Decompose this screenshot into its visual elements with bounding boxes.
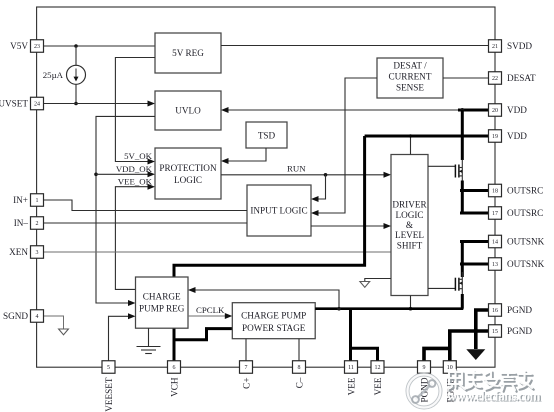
wire thick OUTSNK pin13 stub [460, 263, 489, 266]
ground charge pump reg (earth symbol) [137, 328, 161, 353]
svg-text:5V REG: 5V REG [172, 48, 204, 58]
svg-text:OUTSRC: OUTSRC [507, 208, 543, 218]
wire DESAT box to pin 22 [443, 77, 489, 79]
wire UVLO to VDD_OK chain [96, 116, 155, 306]
pin 3 (XEN) [9, 246, 43, 259]
wire VDD_OK arrow [96, 171, 155, 177]
svg-text:2: 2 [36, 221, 39, 227]
svg-text:VEE: VEE [347, 377, 357, 395]
svg-text:25µA: 25µA [43, 70, 64, 80]
svg-text:&: & [406, 220, 413, 230]
pin 13 (OUTSNK) [489, 258, 545, 271]
svg-text:SHIFT: SHIFT [397, 240, 423, 250]
wire thick FET2 drain feed [461, 242, 464, 278]
wire V5V to 5V REG [44, 45, 156, 47]
wire driver ground lead [365, 279, 391, 282]
block DESAT / CURRENT SENSE [377, 58, 443, 98]
pin 10 (PGND) [443, 361, 456, 403]
wire thick FET2 source to VEE bus [461, 294, 464, 309]
ground power (solid arrow) [466, 349, 485, 360]
pin 11 (VEE) [345, 361, 358, 396]
watermark chinese characters [448, 370, 534, 392]
watermark url text [447, 389, 542, 405]
block INPUT LOGIC [247, 185, 311, 236]
wire thick pin 9 to PGND net [424, 348, 450, 361]
wire driver logic top to VDD rail [410, 136, 412, 155]
block 5V REG [155, 33, 221, 73]
block PROTECTION LOGIC [155, 148, 221, 199]
wire SGND to ground [44, 316, 64, 329]
label 5V_OK [124, 151, 153, 161]
wire DESAT to input logic [311, 78, 377, 216]
pin 23 (V5V) [10, 40, 43, 53]
svg-text:UVSET: UVSET [0, 99, 28, 109]
wire 5V REG to SVDD [221, 45, 489, 47]
pin 20 (VDD) [489, 104, 528, 117]
wire thick VCH branch to power stage [174, 329, 232, 340]
pin 6 (VCH) [168, 361, 181, 397]
svg-text:20: 20 [492, 108, 498, 114]
pin 14 (OUTSNK) [489, 235, 545, 248]
svg-text:LEVEL: LEVEL [395, 230, 424, 240]
wire feedback to charge pump reg [188, 287, 339, 309]
transistor Q2 (sink FET) [428, 272, 463, 296]
wire thick OUTSRC pin18 stub [460, 189, 489, 192]
wire XEN to driver logic [44, 251, 392, 253]
svg-text:3: 3 [36, 250, 39, 256]
svg-text:21: 21 [492, 44, 498, 50]
block UVLO [155, 91, 221, 130]
pin 16 (PGND) [489, 304, 533, 317]
label RUN [287, 163, 306, 173]
svg-text:9: 9 [423, 365, 426, 371]
svg-text:INPUT LOGIC: INPUT LOGIC [250, 206, 307, 216]
label CPCLK [196, 305, 225, 315]
wire thick VCH to pin 6 [173, 328, 176, 361]
svg-text:SGND: SGND [3, 311, 28, 321]
svg-text:www.elecfans.com: www.elecfans.com [447, 389, 541, 404]
svg-text:23: 23 [34, 44, 40, 50]
watermark logo circle [408, 375, 441, 408]
label 25uA [43, 70, 64, 80]
svg-text:PUMP REG: PUMP REG [139, 304, 185, 314]
pin 7 (C+) [240, 361, 253, 389]
wire TSD to protection logic [221, 148, 266, 164]
wire thick FET1 drain feed [461, 110, 464, 160]
svg-text:4: 4 [36, 314, 39, 320]
svg-text:SVDD: SVDD [507, 41, 532, 51]
wire VEE_OK from charge pump reg [115, 184, 155, 290]
svg-text:CHARGE: CHARGE [143, 292, 181, 302]
wire thick OUTSRC pin17 stub [460, 212, 489, 215]
wire VEESET to charge pump reg [109, 313, 136, 361]
svg-text:16: 16 [492, 308, 498, 314]
pin 21 (SVDD) [489, 40, 533, 53]
node junction on VEE bus [409, 307, 413, 311]
svg-text:OUTSNK: OUTSNK [507, 259, 545, 269]
wire thick VDD pin20 stub [458, 109, 489, 112]
pin 9 (PGND) [418, 361, 431, 403]
package outline [37, 7, 495, 367]
svg-text:PGND: PGND [507, 326, 532, 336]
wire 5V REG output down (5V_OK) [115, 58, 155, 165]
pin 12 (VEE) [371, 361, 384, 396]
svg-text:11: 11 [348, 365, 354, 371]
svg-text:OUTSNK: OUTSNK [507, 237, 545, 247]
svg-text:IN+: IN+ [13, 195, 28, 205]
pin 2 (IN-) [14, 217, 44, 230]
label VDD_OK [116, 164, 153, 174]
svg-text:13: 13 [492, 262, 498, 268]
svg-text:12: 12 [375, 365, 381, 371]
transistor Q1 (source FET) [428, 160, 463, 182]
block TSD [246, 122, 287, 148]
wire VDD to UVLO [221, 107, 489, 113]
pin 15 (PGND) [489, 325, 533, 338]
wire UVSET to UVLO [44, 101, 156, 107]
svg-text:6: 6 [173, 365, 176, 371]
block CHARGE PUMP REG [136, 277, 189, 328]
svg-text:SENSE: SENSE [396, 82, 424, 92]
svg-text:18: 18 [492, 189, 498, 195]
pin 4 (SGND) [3, 310, 44, 323]
pin 5 (VEESET) [102, 361, 115, 412]
svg-text:IN–: IN– [14, 218, 29, 228]
pin 1 (IN+) [13, 194, 43, 207]
wire thick VEE bus [315, 307, 463, 310]
svg-text:POWER STAGE: POWER STAGE [242, 323, 306, 333]
wire thick VCH riser [174, 136, 365, 277]
pin 8 (C-) [293, 361, 306, 388]
pin 22 (DESAT) [489, 72, 536, 85]
svg-text:VDD_OK: VDD_OK [116, 164, 153, 174]
svg-text:VCH: VCH [170, 377, 180, 397]
wire thick VEE branch to pins 11 and 12 [351, 309, 378, 361]
svg-text:DRIVER: DRIVER [392, 200, 427, 210]
node junction pin20 line [460, 108, 464, 112]
wire thick PGND pin15 to pin 10 [450, 331, 489, 361]
svg-text:UVLO: UVLO [175, 106, 201, 116]
svg-text:CHARGE PUMP: CHARGE PUMP [241, 310, 306, 320]
svg-text:24: 24 [34, 102, 40, 108]
node junction on V5V line [74, 44, 78, 48]
svg-text:7: 7 [245, 365, 248, 371]
svg-text:5: 5 [107, 365, 110, 371]
svg-text:15: 15 [492, 329, 498, 335]
svg-text:LOGIC: LOGIC [395, 210, 423, 220]
svg-text:VDD: VDD [507, 105, 527, 115]
svg-text:14: 14 [492, 240, 498, 246]
svg-text:OUTSRC: OUTSRC [507, 186, 543, 196]
svg-text:C+: C+ [242, 378, 252, 389]
node junction feedback on bus [337, 307, 341, 311]
wire CPCLK [188, 313, 232, 319]
wire C+ to power stage [245, 339, 247, 361]
current source 25uA [67, 46, 86, 104]
ground SGND (open triangle) [59, 329, 69, 335]
wire thick OUTSNK pin14 stub [460, 240, 489, 243]
svg-text:1: 1 [36, 198, 39, 204]
svg-text:C–: C– [295, 377, 305, 388]
wire driver logic bottom to VEE bus [410, 296, 412, 309]
node junction on VDD rail [409, 134, 413, 138]
block DRIVER LOGIC & LEVEL SHIFT [391, 155, 428, 296]
svg-text:TSD: TSD [258, 131, 276, 141]
svg-text:17: 17 [492, 211, 498, 217]
svg-text:22: 22 [492, 76, 498, 82]
node junction RUN [324, 173, 328, 177]
svg-text:VDD: VDD [507, 131, 527, 141]
wire C- to power stage [298, 339, 300, 361]
svg-text:CURRENT: CURRENT [389, 71, 432, 81]
wire IN- to input logic [44, 222, 248, 224]
node junction VDD_OK [94, 173, 98, 177]
svg-text:DESAT /: DESAT / [393, 60, 427, 70]
svg-text:VEE_OK: VEE_OK [118, 176, 153, 186]
wire thick FET1 source to OUTSRC [461, 181, 464, 214]
svg-text:VEESET: VEESET [104, 377, 114, 412]
svg-text:CPCLK: CPCLK [196, 305, 225, 315]
svg-text:DESAT: DESAT [507, 73, 536, 83]
wire RUN to driver logic [221, 172, 391, 178]
label VEE_OK [118, 176, 153, 186]
wire RUN branch to input logic [311, 175, 326, 202]
svg-text:8: 8 [298, 365, 301, 371]
svg-text:PGND: PGND [507, 305, 532, 315]
pin 19 (VDD) [489, 130, 528, 143]
wire thick VDD pin19 line [365, 135, 489, 138]
svg-text:V5V: V5V [10, 41, 28, 51]
wire IN+ to input logic [44, 200, 248, 211]
svg-text:RUN: RUN [287, 163, 306, 173]
svg-text:10: 10 [447, 365, 453, 371]
block CHARGE PUMP POWER STAGE [232, 303, 315, 339]
pin 17 (OUTSRC) [489, 207, 544, 220]
pin 18 (OUTSRC) [489, 184, 544, 197]
svg-text:VEE: VEE [373, 377, 383, 395]
wire thick PGND pin16 to ground arrow [476, 310, 489, 349]
node junction on UVSET line [74, 102, 78, 106]
ground driver (open triangle) [360, 282, 370, 288]
pin 24 (UVSET) [0, 97, 44, 110]
svg-text:5V_OK: 5V_OK [124, 151, 153, 161]
wire input logic to driver logic [311, 223, 391, 229]
svg-text:19: 19 [492, 134, 498, 140]
svg-text:XEN: XEN [9, 247, 28, 257]
svg-text:PROTECTION: PROTECTION [159, 163, 217, 173]
svg-text:LOGIC: LOGIC [174, 175, 202, 185]
